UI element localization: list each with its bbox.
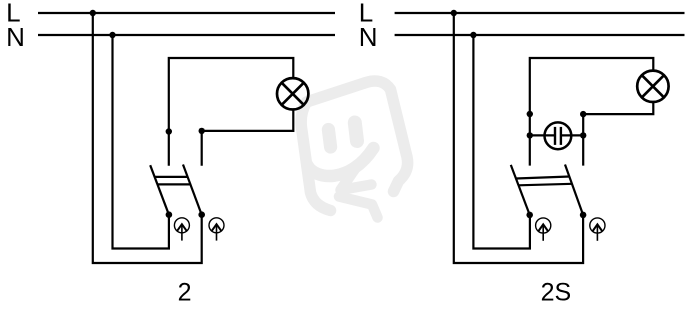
svg-text:N: N: [359, 22, 378, 52]
junction: lever 1 pivot: [166, 211, 173, 218]
junction: glow branch left top: [527, 111, 533, 117]
switch S2 coupling rung 1: [516, 177, 570, 179]
actuator indicator 1: [174, 218, 189, 241]
wire: N drop to switch pole 1: [113, 35, 169, 249]
wire: L drop to switch pole 2 (right): [454, 13, 583, 263]
switch S1 lever 2: [183, 165, 202, 215]
switch S2 lever 1: [511, 165, 530, 215]
lamp E2: [637, 71, 668, 102]
junction: L bus tap: [90, 10, 96, 16]
wire: L bus (right): [395, 12, 685, 14]
actuator indicator 3: [536, 218, 551, 241]
wire: N drop to switch pole 1 (right): [473, 35, 530, 249]
junction: N bus tap: [109, 32, 115, 38]
watermark logo: [301, 81, 407, 217]
wire: lamp bottom to fixed contact 2: [202, 110, 294, 166]
svg-text:2: 2: [178, 278, 192, 306]
wire: L drop to switch pole 2: [93, 13, 202, 263]
wire: lamp bottom to fixed contact 2 (right): [583, 102, 653, 166]
lamp E1: [277, 78, 308, 109]
switch S2 coupling rung 2: [518, 184, 572, 186]
junction: node on loop left: [166, 128, 172, 134]
wire: L bus: [38, 12, 335, 14]
wire: lamp loop top (fixed contact 1 to lamp top): [169, 58, 293, 166]
wire: N bus: [38, 34, 335, 36]
switch S2 lever 2: [565, 165, 583, 215]
junction: glow branch right top: [580, 111, 586, 117]
actuator indicator 4: [590, 218, 605, 241]
junction: lever 2 pivot: [198, 211, 205, 218]
junction: glow lamp right node: [580, 132, 586, 138]
wire: lamp loop top (right): [530, 58, 654, 166]
junction: node on lamp return: [199, 128, 205, 134]
glow lamp H1: [545, 122, 572, 149]
wire: N bus (right): [395, 34, 685, 36]
wire: glow lamp left lead: [530, 134, 555, 136]
svg-text:2S: 2S: [541, 278, 572, 306]
wire: glow lamp right lead: [561, 134, 583, 136]
junction: glow lamp left node: [527, 132, 533, 138]
switch S1 coupling rung 2: [158, 183, 191, 185]
switch S1 coupling rung 1: [155, 176, 188, 178]
junction: lever 1 pivot (right): [526, 212, 533, 219]
actuator indicator 2: [209, 218, 224, 241]
junction: L bus tap (right): [451, 10, 457, 16]
switch S1 lever 1: [150, 165, 169, 215]
junction: N bus tap (right): [470, 32, 476, 38]
junction: lever 2 pivot (right): [580, 212, 587, 219]
svg-text:N: N: [6, 22, 25, 52]
